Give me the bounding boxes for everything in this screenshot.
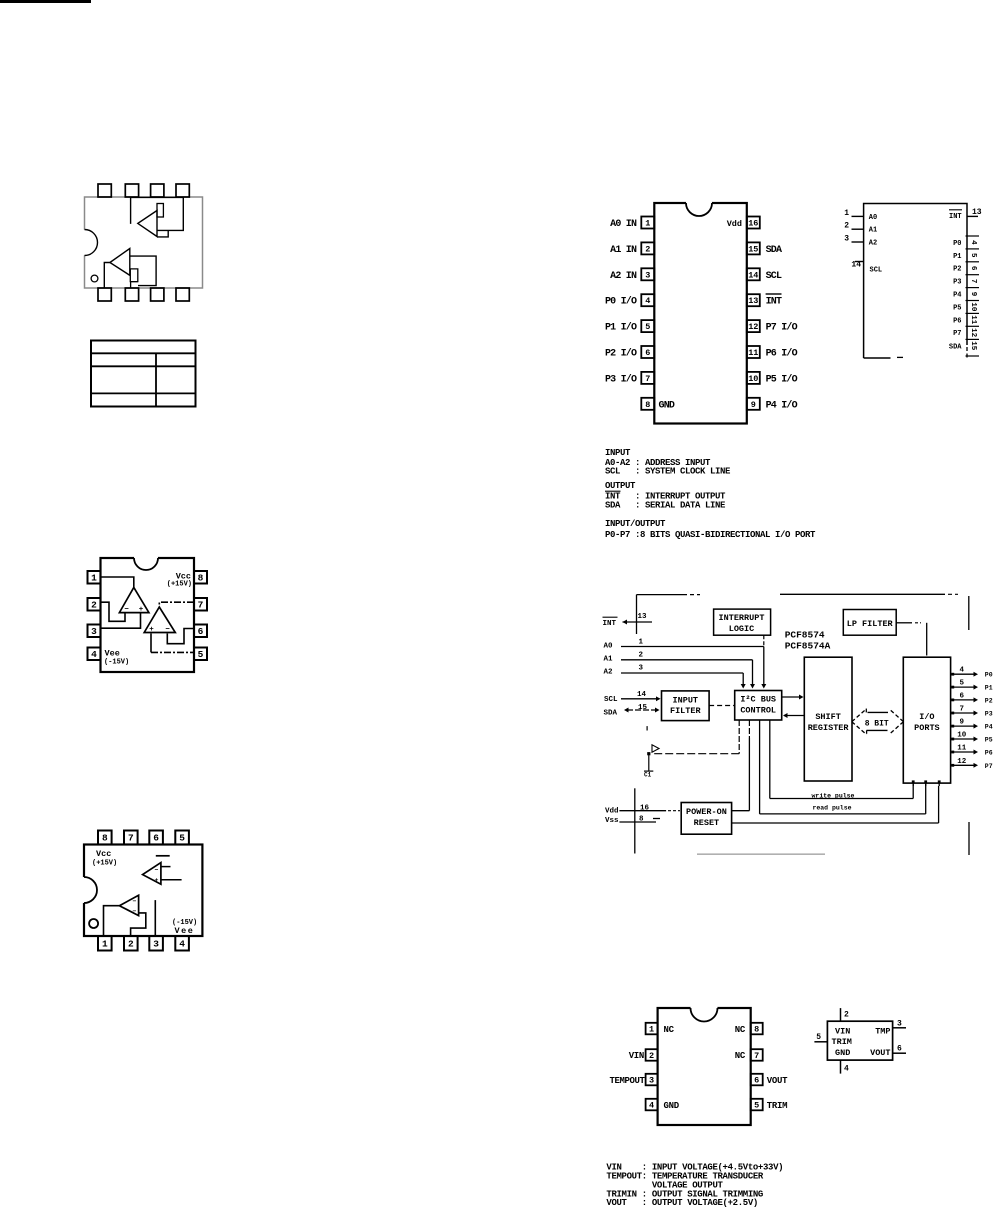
svg-text:3: 3 — [897, 1020, 902, 1029]
svg-text:2: 2 — [91, 599, 97, 610]
svg-text:read pulse: read pulse — [812, 805, 851, 812]
svg-text:A0: A0 — [869, 214, 877, 222]
svg-text:PCF8574A: PCF8574A — [785, 641, 831, 652]
svg-text:SDA : SERIAL DATA LINE: SDA : SERIAL DATA LINE — [605, 501, 726, 511]
svg-text:Vee: Vee — [105, 649, 120, 659]
svg-text:INPUT: INPUT — [673, 696, 699, 706]
svg-text:1: 1 — [844, 209, 849, 218]
svg-text:11: 11 — [957, 745, 967, 753]
svg-text:9: 9 — [969, 292, 977, 297]
svg-text:(+15V): (+15V) — [92, 860, 117, 868]
svg-text:4: 4 — [844, 1065, 849, 1074]
svg-text:7: 7 — [969, 279, 977, 284]
svg-text:+: + — [149, 626, 154, 634]
svg-text:1: 1 — [639, 639, 644, 647]
svg-text:2: 2 — [844, 222, 849, 231]
svg-text:P2: P2 — [953, 266, 961, 274]
svg-text:SCL: SCL — [870, 267, 883, 275]
svg-text:10: 10 — [957, 732, 967, 740]
svg-text:8: 8 — [102, 833, 108, 844]
svg-text:4: 4 — [645, 296, 650, 306]
svg-text:LP FILTER: LP FILTER — [847, 619, 894, 629]
svg-text:6: 6 — [645, 348, 650, 358]
svg-text:(-15V): (-15V) — [104, 659, 129, 667]
svg-text:NC: NC — [735, 1051, 746, 1061]
svg-text:4: 4 — [91, 649, 97, 660]
svg-text:GND: GND — [664, 1101, 680, 1111]
svg-text:−: − — [165, 626, 170, 634]
svg-text:−: − — [155, 867, 159, 874]
svg-text:A2 IN: A2 IN — [610, 271, 637, 282]
svg-text:7: 7 — [128, 833, 134, 844]
svg-text:GND: GND — [835, 1048, 850, 1058]
svg-text:2: 2 — [649, 1051, 654, 1061]
svg-text:8: 8 — [645, 400, 650, 410]
svg-text:10: 10 — [748, 374, 758, 384]
svg-text:3: 3 — [639, 665, 644, 673]
svg-text:A2: A2 — [604, 669, 614, 677]
svg-text:P4 I/O: P4 I/O — [766, 399, 798, 411]
svg-text:3: 3 — [153, 938, 159, 949]
svg-text:P0-P7 :8 BITS QUASI-BIDIRECTIO: P0-P7 :8 BITS QUASI-BIDIRECTIONAL I/O PO… — [605, 530, 816, 540]
svg-text:8 BIT: 8 BIT — [865, 720, 889, 729]
svg-text:A2: A2 — [869, 240, 877, 248]
svg-text:11: 11 — [969, 315, 977, 325]
svg-text:+: + — [139, 606, 144, 614]
svg-text:P0: P0 — [985, 672, 993, 679]
svg-text:P5: P5 — [985, 737, 993, 744]
svg-text:5: 5 — [645, 322, 650, 332]
svg-text:5: 5 — [198, 649, 204, 660]
svg-text:14: 14 — [748, 270, 758, 280]
svg-text:P3 I/O: P3 I/O — [605, 373, 637, 385]
svg-text:REGISTER: REGISTER — [808, 723, 850, 733]
svg-text:−: − — [133, 908, 137, 915]
svg-text:6: 6 — [754, 1076, 759, 1086]
svg-text:SDA: SDA — [949, 343, 962, 351]
svg-text:3: 3 — [645, 270, 650, 280]
svg-text:6: 6 — [897, 1045, 902, 1054]
svg-text:2: 2 — [639, 652, 644, 660]
svg-text:P0: P0 — [953, 240, 961, 248]
svg-text:5: 5 — [754, 1101, 759, 1111]
svg-text:Vdd: Vdd — [727, 219, 742, 229]
svg-text:P4: P4 — [953, 292, 961, 300]
svg-text:4: 4 — [179, 938, 185, 949]
svg-text:TRIM: TRIM — [832, 1037, 852, 1047]
svg-text:5: 5 — [179, 833, 185, 844]
svg-text:P5 I/O: P5 I/O — [766, 373, 798, 385]
svg-text:INPUT/OUTPUT: INPUT/OUTPUT — [605, 519, 666, 529]
svg-text:PORTS: PORTS — [914, 723, 940, 733]
svg-text:6: 6 — [153, 833, 159, 844]
svg-text:7: 7 — [960, 706, 965, 714]
svg-text:4: 4 — [960, 667, 965, 675]
svg-text:POWER-ON: POWER-ON — [686, 807, 727, 817]
svg-text:Vss: Vss — [605, 817, 619, 825]
svg-text:1: 1 — [91, 572, 97, 583]
svg-text:C1: C1 — [644, 772, 652, 779]
svg-text:SDA: SDA — [766, 245, 782, 256]
svg-text:6: 6 — [960, 692, 965, 700]
svg-text:15: 15 — [969, 341, 977, 351]
svg-text:P5: P5 — [953, 304, 961, 312]
svg-text:SCL: SCL — [604, 696, 618, 704]
svg-text:P0 I/O: P0 I/O — [605, 296, 637, 308]
svg-text:16: 16 — [748, 219, 758, 229]
svg-text:VOUT: VOUT — [767, 1076, 788, 1086]
svg-text:A1: A1 — [604, 656, 614, 664]
svg-text:PCF8574: PCF8574 — [785, 630, 825, 641]
svg-text:VIN: VIN — [835, 1027, 850, 1037]
svg-text:−: − — [133, 898, 137, 905]
svg-text:GND: GND — [659, 400, 675, 411]
svg-text:I/O: I/O — [919, 712, 934, 722]
svg-text:14: 14 — [637, 691, 647, 699]
svg-text:P6: P6 — [985, 750, 993, 757]
svg-text:TEMPOUT: TEMPOUT — [609, 1076, 645, 1086]
svg-text:12: 12 — [957, 758, 967, 766]
svg-text:P2: P2 — [985, 697, 993, 704]
svg-text:Vee: Vee — [175, 926, 195, 936]
svg-text:3: 3 — [649, 1076, 654, 1086]
svg-text:NC: NC — [735, 1025, 746, 1035]
svg-text:7: 7 — [198, 599, 204, 610]
svg-text:SCL: SCL — [766, 271, 782, 282]
svg-text:RESET: RESET — [694, 818, 720, 828]
svg-text:SHIFT: SHIFT — [815, 712, 841, 722]
svg-text:1: 1 — [102, 938, 108, 949]
svg-text:SDA: SDA — [604, 710, 618, 718]
svg-text:8: 8 — [754, 1025, 759, 1035]
svg-text:Vdd: Vdd — [605, 808, 619, 816]
svg-text:+: + — [155, 877, 159, 884]
svg-text:P6 I/O: P6 I/O — [766, 348, 798, 360]
svg-text:7: 7 — [645, 374, 650, 384]
svg-text:INT: INT — [949, 213, 962, 221]
svg-text:13: 13 — [748, 296, 758, 306]
svg-text:3: 3 — [91, 626, 97, 637]
svg-text:P3: P3 — [953, 279, 961, 287]
svg-text:P4: P4 — [985, 724, 993, 731]
svg-text:INPUT: INPUT — [605, 448, 631, 458]
svg-text:P1: P1 — [985, 685, 993, 692]
svg-text:6: 6 — [198, 626, 204, 637]
svg-text:A0 IN: A0 IN — [610, 219, 637, 230]
svg-text:15: 15 — [748, 244, 758, 254]
svg-text:5: 5 — [816, 1033, 821, 1042]
svg-text:6: 6 — [969, 266, 977, 271]
svg-text:9: 9 — [751, 400, 756, 410]
svg-text:4: 4 — [969, 240, 977, 245]
svg-text:P7 I/O: P7 I/O — [766, 322, 798, 334]
svg-text:FILTER: FILTER — [670, 706, 702, 716]
svg-text:TRIM: TRIM — [767, 1101, 787, 1111]
svg-text:5: 5 — [969, 253, 977, 258]
svg-text:TMP: TMP — [875, 1027, 890, 1037]
svg-text:SCL : SYSTEM CLOCK LINE: SCL : SYSTEM CLOCK LINE — [605, 467, 731, 477]
svg-text:P7: P7 — [953, 330, 961, 338]
svg-text:13: 13 — [972, 208, 982, 217]
svg-text:10: 10 — [969, 302, 977, 312]
svg-text:15: 15 — [638, 704, 648, 712]
svg-text:11: 11 — [748, 348, 758, 358]
svg-text:VIN: VIN — [629, 1051, 644, 1061]
svg-text:P1: P1 — [953, 253, 961, 261]
svg-text:VOUT: VOUT — [870, 1048, 890, 1058]
svg-text:8: 8 — [198, 572, 204, 583]
svg-text:3: 3 — [844, 235, 849, 244]
svg-text:2: 2 — [844, 1011, 849, 1020]
svg-text:4: 4 — [649, 1101, 654, 1111]
svg-text:9: 9 — [960, 719, 965, 727]
svg-text:LOGIC: LOGIC — [729, 624, 755, 634]
svg-text:2: 2 — [645, 244, 650, 254]
svg-text:P3: P3 — [985, 711, 993, 718]
svg-text:NC: NC — [664, 1025, 675, 1035]
svg-text:INT: INT — [603, 620, 617, 628]
svg-text:I²C BUS: I²C BUS — [740, 695, 776, 705]
svg-text:INTERRUPT: INTERRUPT — [719, 613, 765, 623]
svg-text:(+15V): (+15V) — [167, 581, 192, 589]
svg-text:INT: INT — [766, 297, 782, 308]
svg-text:P2 I/O: P2 I/O — [605, 348, 637, 360]
svg-text:1: 1 — [645, 219, 650, 229]
svg-text:OUTPUT: OUTPUT — [605, 481, 636, 491]
svg-text:A1 IN: A1 IN — [610, 245, 637, 256]
svg-text:P7: P7 — [985, 763, 993, 770]
svg-text:A1: A1 — [869, 227, 877, 235]
svg-text:P6: P6 — [953, 317, 961, 325]
svg-text:7: 7 — [754, 1051, 759, 1061]
svg-text:P1 I/O: P1 I/O — [605, 322, 637, 334]
svg-text:Vcc: Vcc — [96, 849, 111, 859]
svg-text:CONTROL: CONTROL — [740, 706, 776, 716]
svg-text:2: 2 — [128, 938, 134, 949]
svg-text:5: 5 — [960, 680, 965, 688]
svg-text:12: 12 — [969, 328, 977, 338]
svg-text:A0: A0 — [604, 643, 614, 651]
svg-text:12: 12 — [748, 322, 758, 332]
svg-text:VOUT : OUTPUT VOLTAGE(+2.5V): VOUT : OUTPUT VOLTAGE(+2.5V) — [606, 1198, 758, 1208]
svg-text:1: 1 — [649, 1025, 654, 1035]
svg-text:13: 13 — [638, 613, 648, 621]
